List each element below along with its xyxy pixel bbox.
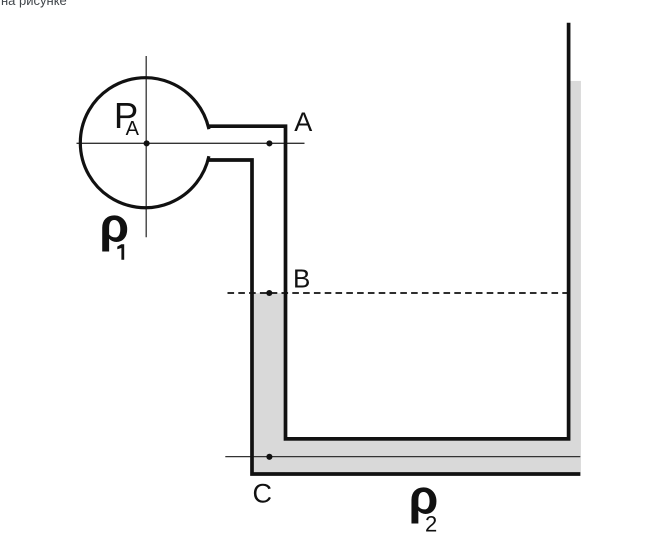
wall: neck top, tube right wall, inner bottom wall, vessel left wall	[208, 23, 569, 439]
dot at point C	[266, 454, 272, 460]
dot at point A	[266, 140, 272, 146]
svg-text:C: C	[253, 479, 273, 509]
liquid rho2 in bottom channel	[254, 441, 581, 472]
svg-text:A: A	[126, 118, 140, 140]
svg-text:2: 2	[425, 512, 437, 533]
vertical crosshair line through bulb	[145, 56, 147, 237]
liquid rho2 in right vessel	[570, 81, 581, 472]
svg-text:B: B	[293, 264, 310, 294]
thin horizontal line through level C	[225, 456, 580, 458]
dot at bulb center	[144, 140, 150, 146]
horizontal crosshair line through level A	[77, 142, 305, 144]
dot at point B	[266, 290, 272, 296]
svg-text:A: A	[294, 107, 312, 137]
caption text "на рисунке"	[1, 0, 67, 8]
svg-text:ρ: ρ	[99, 200, 129, 253]
wall: neck bottom, tube left wall, outer bottom wall	[208, 160, 581, 474]
liquid rho2 in narrow tube below level B	[254, 293, 285, 472]
dashed line at level B	[228, 292, 568, 294]
label rho1 subscript 1	[117, 244, 124, 259]
bulb circle (gap at neck)	[80, 78, 209, 208]
